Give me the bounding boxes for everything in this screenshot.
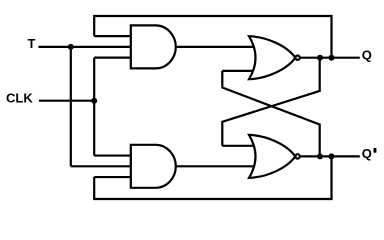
wire bottom feedback loop from Q' node down and around to AND2 [94, 156, 331, 199]
wire NOR2 top input from Q cross-coupling [222, 145, 256, 147]
wire T input lead to AND1 middle input [38, 46, 130, 48]
wire T vertical from junction down to AND2 middle input [70, 47, 72, 166]
wire AND2 bottom input from Q' feedback [94, 176, 131, 178]
junction Q to cross-coupling [317, 55, 323, 61]
wire CLK vertical joining both AND gates [93, 58, 95, 156]
apostrophe of Q' label [374, 148, 377, 153]
and-gate U2 (bottom AND) [131, 145, 176, 188]
wire cross-coupling Q' to NOR1 (up-left diagonal) [222, 71, 319, 156]
wire NOR1 bottom input from Q' cross-coupling [222, 70, 256, 72]
svg-text:Q: Q [362, 146, 372, 161]
wire AND1 bottom input from CLK [94, 57, 131, 59]
wire top feedback loop from Q node up and over to AND1 [94, 16, 331, 58]
wire AND2 middle input [71, 165, 131, 167]
junction Q' to bottom feedback [329, 153, 335, 159]
inversion bubble of U3 [295, 56, 299, 60]
wire AND2 output to NOR2 bottom input [175, 165, 257, 167]
junction Q to top feedback [329, 55, 335, 61]
svg-text:Q: Q [362, 48, 372, 63]
wire Q output line [301, 57, 360, 59]
nor-gate U3 (top NOR) [249, 36, 295, 79]
svg-text:T: T [28, 36, 36, 51]
junction Q' to cross-coupling [317, 153, 323, 159]
junction CLK node [91, 98, 97, 104]
wire CLK input lead [39, 100, 94, 102]
wire AND1 output to NOR1 top input [175, 46, 257, 48]
junction T input node [68, 44, 74, 50]
wire cross-coupling Q to NOR2 (down-left diagonal) [222, 58, 319, 146]
wire AND1 top input from Q feedback [94, 35, 131, 37]
svg-text:CLK: CLK [6, 90, 33, 105]
inversion bubble of U4 [295, 154, 299, 158]
wire AND2 top input from CLK [94, 154, 131, 156]
nor-gate U4 (bottom NOR) [249, 135, 295, 178]
wire Q' output line [301, 155, 360, 157]
and-gate U1 (top AND) [131, 25, 176, 68]
